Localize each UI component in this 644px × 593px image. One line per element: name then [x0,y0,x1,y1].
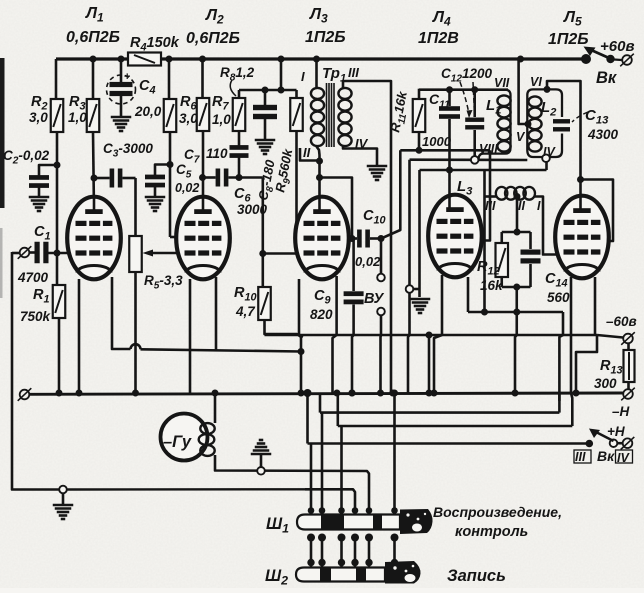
svg-text:Вк: Вк [597,448,615,464]
svg-text:1П2Б: 1П2Б [305,29,346,46]
svg-text:1000: 1000 [422,134,452,149]
svg-text:IV: IV [543,145,556,159]
svg-text:3000: 3000 [237,202,268,217]
svg-text:III: III [348,65,359,80]
svg-text:0,02: 0,02 [175,181,199,195]
svg-text:+60в: +60в [600,38,635,55]
svg-text:1,0: 1,0 [212,112,231,127]
svg-text:II: II [303,145,311,160]
svg-text:–Гу: –Гу [163,433,192,451]
svg-text:I: I [537,199,541,213]
svg-text:1П2Б: 1П2Б [548,31,589,48]
svg-text:Вк: Вк [596,69,618,87]
svg-text:I: I [301,69,305,84]
svg-text:Воспроизведение,: Воспроизведение, [433,504,562,520]
svg-text:4700: 4700 [17,270,49,285]
svg-text:300: 300 [594,376,617,391]
svg-text:III: III [575,450,586,464]
svg-text:0,6П2Б: 0,6П2Б [186,30,240,47]
svg-text:110: 110 [206,146,228,161]
svg-text:+: + [124,71,130,83]
svg-text:3,0: 3,0 [179,111,198,126]
svg-text:1П2В: 1П2В [418,30,459,47]
svg-text:VIII: VIII [479,142,498,156]
svg-text:VII: VII [494,76,510,90]
svg-text:16k: 16k [480,278,504,293]
svg-text:контроль: контроль [455,524,528,540]
svg-text:1,0: 1,0 [68,110,87,125]
svg-text:750k: 750k [20,309,52,324]
svg-text:3,0: 3,0 [29,110,48,125]
svg-text:20,0: 20,0 [134,104,162,119]
svg-text:Запись: Запись [447,567,506,585]
svg-text:IV: IV [355,136,369,151]
svg-text:0,02: 0,02 [355,254,381,269]
svg-text:R4150k: R4150k [130,35,180,54]
svg-text:VI: VI [530,75,542,89]
svg-text:–60в: –60в [606,314,637,329]
svg-text:560: 560 [547,290,570,305]
svg-text:II: II [518,199,525,213]
svg-text:ВУ: ВУ [364,291,385,307]
svg-text:4,7: 4,7 [235,304,256,319]
svg-text:0,6П2Б: 0,6П2Б [66,29,120,46]
svg-text:III: III [485,199,496,213]
svg-text:4300: 4300 [587,127,619,142]
svg-text:+Н: +Н [607,424,625,439]
svg-text:820: 820 [310,307,333,322]
svg-text:–Н: –Н [612,404,630,419]
